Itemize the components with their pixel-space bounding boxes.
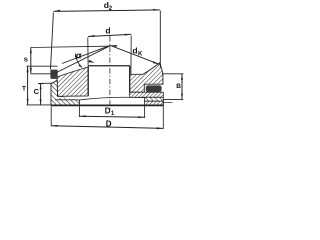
B bottom reference [163,98,183,100]
seat silhouette curve through bore [79,97,144,100]
shaft washer right block + dome (hatched) [130,63,163,93]
svg-text:T: T [22,86,26,93]
D dimension line [51,126,163,129]
svg-text:D: D [106,119,112,128]
svg-text:C: C [34,87,40,96]
B extra thin line [163,101,172,103]
T top reference [27,65,58,67]
T bottom reference [27,104,52,106]
bottom face line [51,104,163,106]
D1 extensions [78,106,80,117]
T dimension vertical [27,66,29,104]
svg-text:d: d [105,26,110,36]
C dimension vertical [40,84,42,105]
cone line L1 (left, from apex) [62,45,110,63]
alpha arc with arrows [75,54,82,68]
C top reference [39,82,53,84]
s top reference line [31,46,108,47]
d dimension line [88,34,131,36]
B top reference [162,73,183,75]
right band C [145,97,164,101]
bore left edge [87,66,89,96]
d2 dimension line [54,10,160,12]
dK arrowhead right [153,61,160,64]
d right extension [130,36,132,74]
d2 arrowheads [54,10,61,12]
tilt line L2 [56,46,111,73]
seat gap sliver left [58,97,79,99]
svg-text:K: K [138,51,143,57]
bore right edge [129,66,131,93]
svg-text:B: B [176,83,181,90]
d2 left extension [51,13,54,70]
right band B [130,92,164,97]
shaft washer left wedge (hatched) [57,67,88,96]
svg-text:s: s [24,54,28,63]
B dimension vertical [181,74,183,100]
svg-text:d: d [132,46,137,56]
housing washer left rim + strip (hatched) [51,80,79,105]
s bottom reference line [31,73,53,75]
d arrowheads [88,35,95,37]
dK dimension slanted line [110,45,159,64]
D extensions [50,107,52,127]
svg-text:α: α [76,50,82,60]
small arrow on sphere edge [88,60,94,63]
seal blob right (dark) [146,85,162,92]
D1 dimension line [79,115,144,118]
s dimension vertical [30,47,32,73]
dome flat top line [88,65,130,67]
d2/dK right extension [159,11,161,68]
small arrow at apex [110,45,117,47]
seal blob left (dark) [50,70,57,79]
right band D [145,101,164,105]
d left extension [87,38,89,66]
centerline (bearing axis) [109,36,111,111]
svg-text:D: D [105,106,111,115]
